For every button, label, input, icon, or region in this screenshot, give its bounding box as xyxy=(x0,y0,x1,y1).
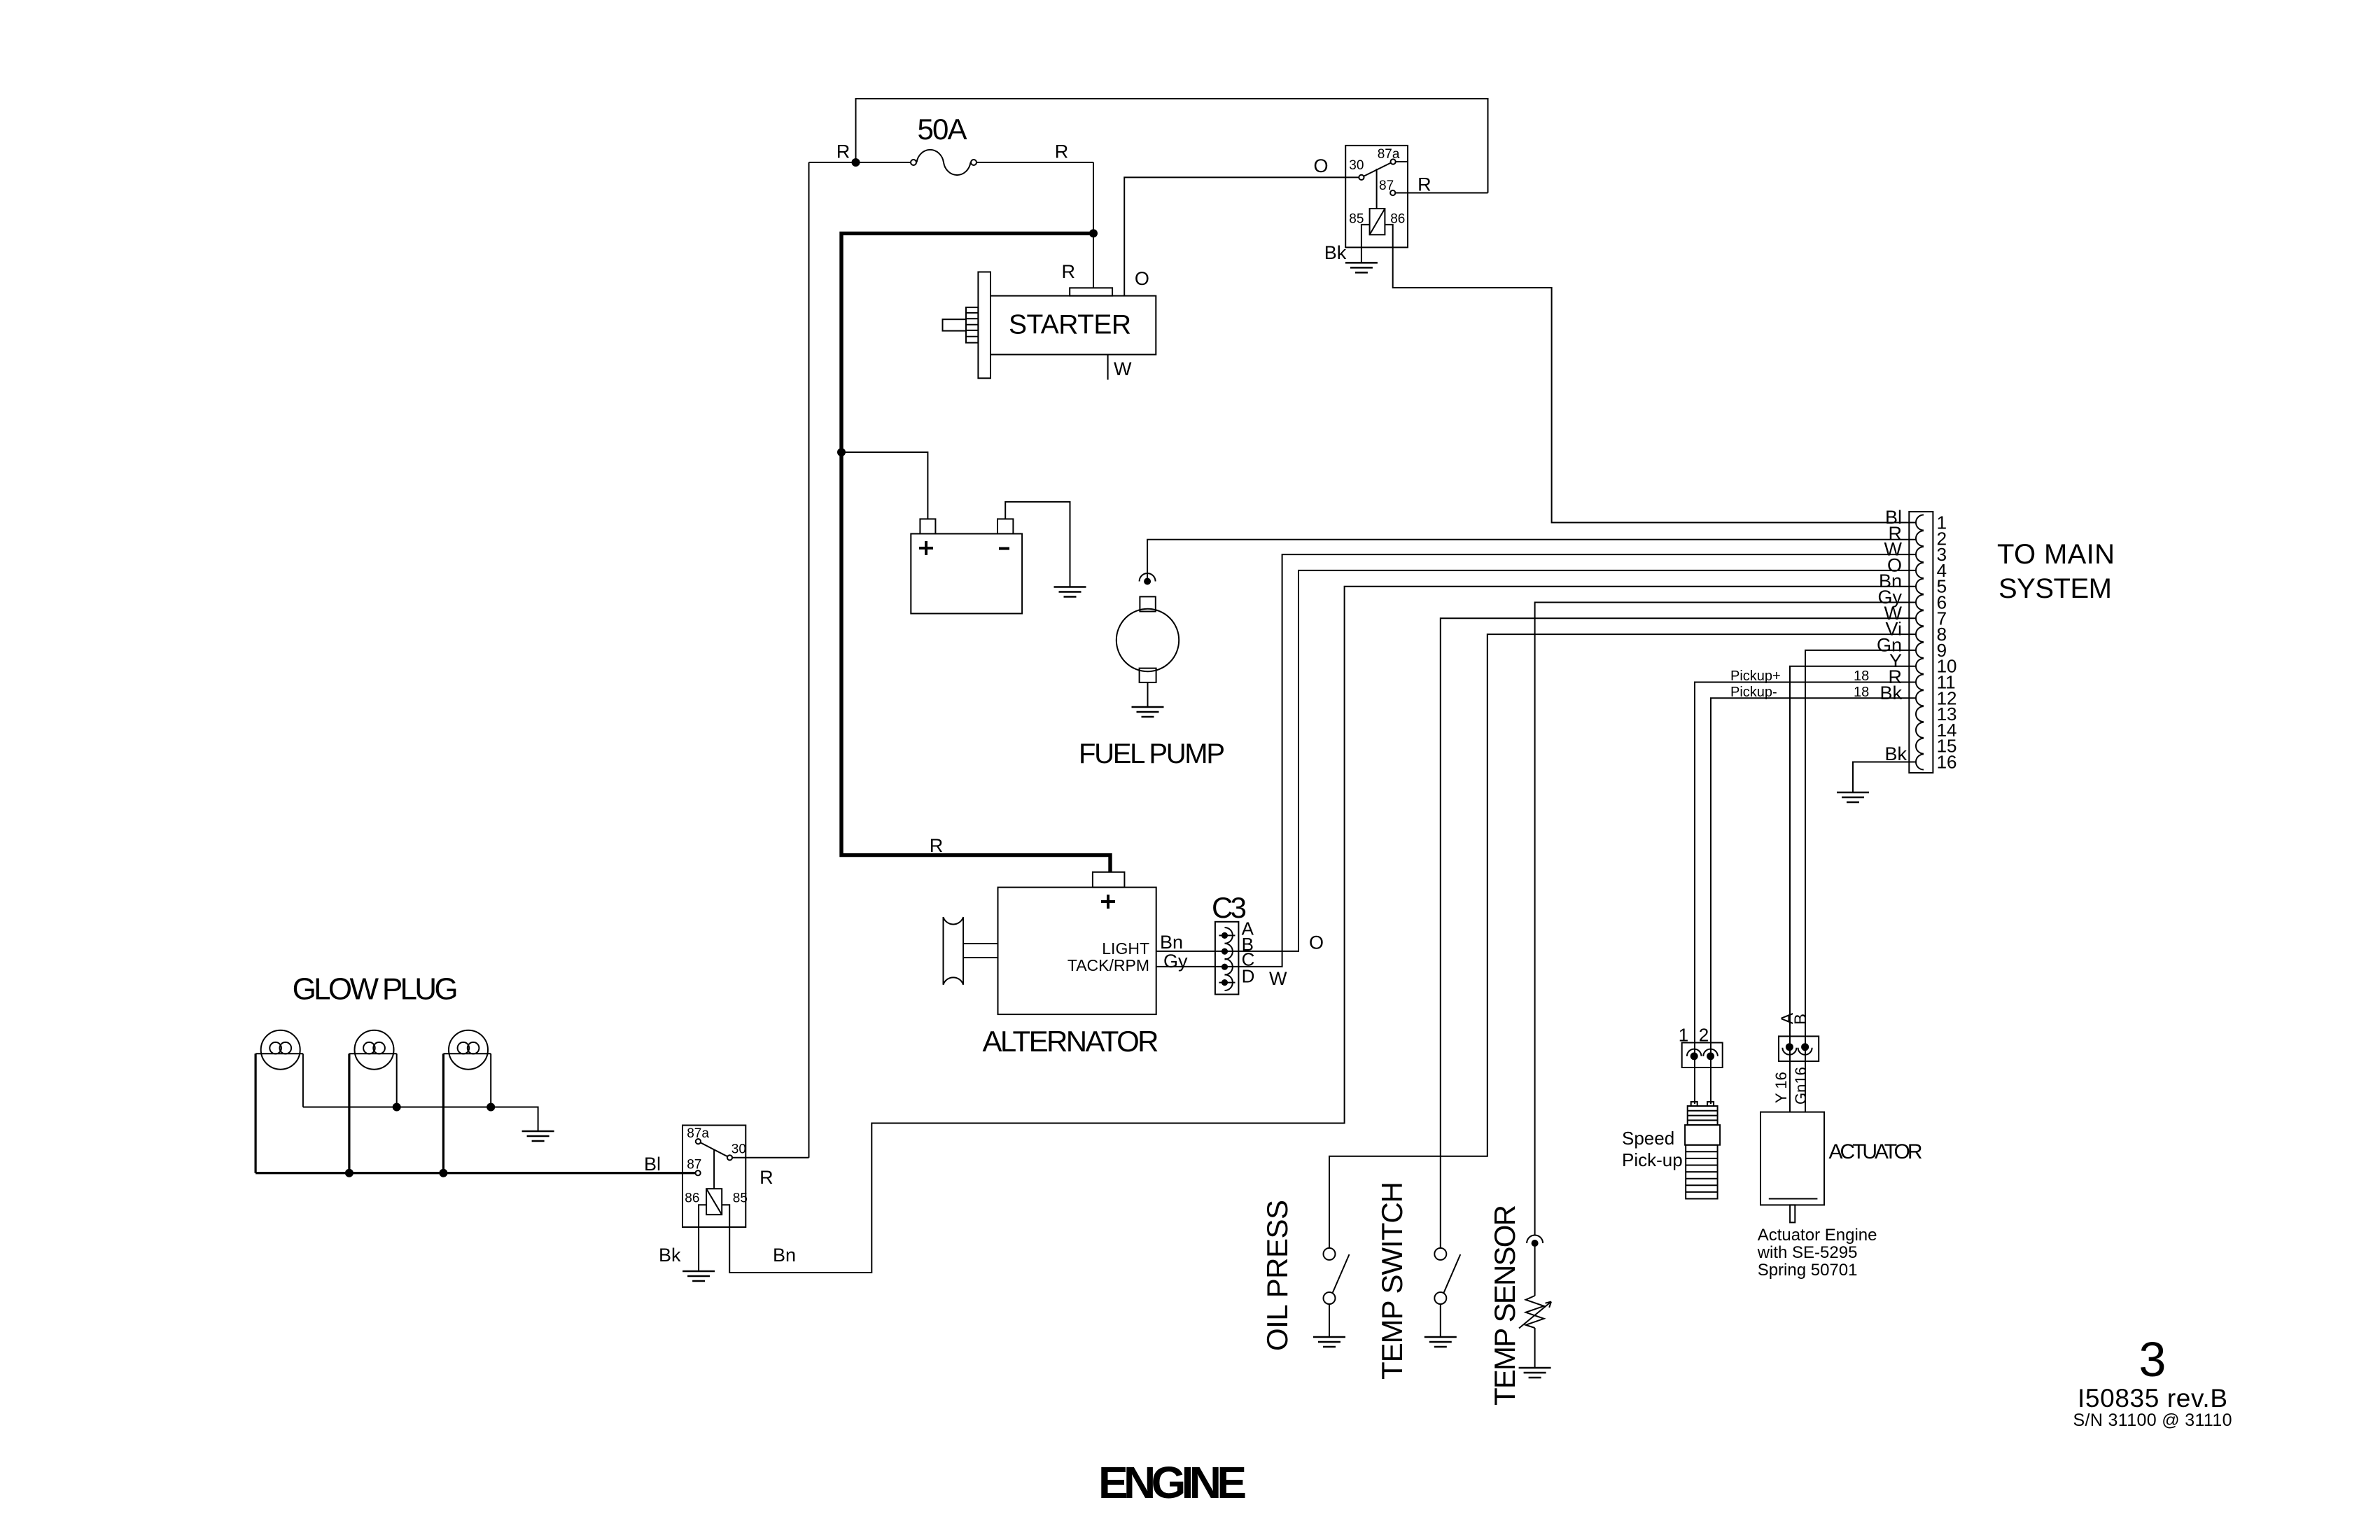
svg-text:Gn16: Gn16 xyxy=(1792,1067,1809,1105)
svg-text:87a: 87a xyxy=(687,1126,709,1141)
svg-text:D: D xyxy=(1242,966,1255,987)
svg-text:R: R xyxy=(1055,141,1069,162)
svg-text:Pick-up: Pick-up xyxy=(1622,1149,1683,1170)
svg-text:B: B xyxy=(1791,1014,1810,1025)
svg-text:Actuator Engine: Actuator Engine xyxy=(1758,1226,1877,1245)
svg-text:O: O xyxy=(1135,268,1149,289)
svg-text:30: 30 xyxy=(731,1142,746,1157)
svg-text:SYSTEM: SYSTEM xyxy=(1998,573,2112,604)
svg-text:FUEL PUMP: FUEL PUMP xyxy=(1079,738,1225,769)
svg-text:R: R xyxy=(759,1167,773,1188)
svg-text:TACK/RPM: TACK/RPM xyxy=(1067,956,1149,974)
svg-text:2: 2 xyxy=(1699,1025,1709,1046)
svg-text:with SE-5295: with SE-5295 xyxy=(1757,1243,1858,1262)
svg-text:Pickup-: Pickup- xyxy=(1730,685,1777,700)
svg-text:R: R xyxy=(836,141,850,162)
svg-text:I50835 rev.B: I50835 rev.B xyxy=(2078,1384,2227,1413)
svg-text:16: 16 xyxy=(1937,752,1957,773)
svg-text:TEMP SENSOR: TEMP SENSOR xyxy=(1488,1205,1521,1406)
svg-text:O: O xyxy=(1314,155,1329,176)
svg-text:85: 85 xyxy=(733,1191,748,1206)
svg-text:Speed: Speed xyxy=(1622,1128,1674,1149)
svg-text:87: 87 xyxy=(687,1158,701,1172)
svg-text:LIGHT: LIGHT xyxy=(1102,939,1149,958)
svg-text:50A: 50A xyxy=(918,113,967,146)
svg-text:R: R xyxy=(1417,174,1431,195)
svg-text:30: 30 xyxy=(1349,158,1364,173)
svg-text:ENGINE: ENGINE xyxy=(1098,1457,1247,1508)
svg-text:TEMP SWITCH: TEMP SWITCH xyxy=(1375,1182,1408,1380)
svg-text:87a: 87a xyxy=(1378,147,1400,162)
svg-text:W: W xyxy=(1269,968,1287,989)
svg-text:86: 86 xyxy=(685,1191,699,1206)
svg-text:O: O xyxy=(1309,932,1324,953)
svg-text:Bk: Bk xyxy=(1324,242,1347,263)
svg-text:W: W xyxy=(1114,358,1132,379)
svg-text:R: R xyxy=(1062,261,1076,282)
svg-text:STARTER: STARTER xyxy=(1009,309,1131,339)
svg-text:ALTERNATOR: ALTERNATOR xyxy=(983,1025,1159,1058)
svg-text:87: 87 xyxy=(1379,178,1394,193)
svg-text:OIL PRESS: OIL PRESS xyxy=(1261,1200,1294,1351)
svg-text:Bl: Bl xyxy=(644,1154,661,1175)
svg-text:Bk: Bk xyxy=(1884,743,1907,764)
svg-text:Spring 50701: Spring 50701 xyxy=(1758,1261,1858,1280)
svg-text:S/N 31100 @ 31110: S/N 31100 @ 31110 xyxy=(2073,1410,2232,1430)
svg-text:3: 3 xyxy=(2139,1332,2166,1387)
svg-text:Gy: Gy xyxy=(1163,951,1188,972)
svg-text:TO MAIN: TO MAIN xyxy=(1997,539,2115,570)
svg-text:86: 86 xyxy=(1390,211,1405,226)
svg-text:Bk: Bk xyxy=(659,1245,681,1266)
svg-text:Bk: Bk xyxy=(1879,682,1902,703)
svg-text:1: 1 xyxy=(1679,1025,1688,1046)
svg-text:18: 18 xyxy=(1854,668,1869,684)
svg-text:R: R xyxy=(930,835,944,856)
svg-text:Y 16: Y 16 xyxy=(1772,1072,1790,1103)
svg-text:85: 85 xyxy=(1349,211,1364,226)
svg-text:ACTUATOR: ACTUATOR xyxy=(1829,1140,1923,1163)
svg-text:GLOW PLUG: GLOW PLUG xyxy=(293,972,458,1006)
svg-text:Bn: Bn xyxy=(773,1245,796,1266)
svg-text:Pickup+: Pickup+ xyxy=(1730,668,1781,684)
svg-text:18: 18 xyxy=(1854,685,1869,700)
svg-text:Bn: Bn xyxy=(1160,932,1183,953)
